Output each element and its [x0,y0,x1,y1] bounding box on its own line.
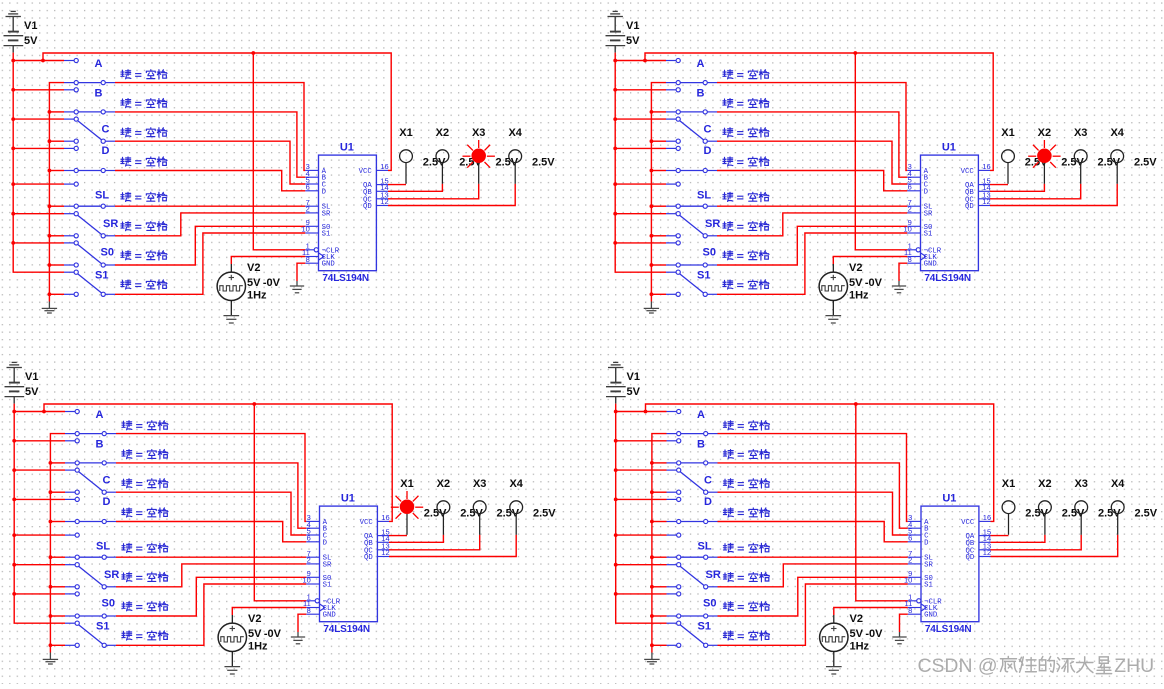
svg-text:CSDN @: CSDN @ [918,655,998,677]
Q3 wire 5V rail to switch [14,498,65,500]
wire QD output to probe X4 [388,184,515,206]
svg-text:5V: 5V [627,386,641,398]
IC Q2-U1 74LS194N body [921,155,979,271]
svg-text:V2: V2 [247,262,260,274]
wire QC output to probe X3 [991,535,1082,550]
pin 16 VCC of Q4-U1 [979,520,991,522]
svg-text:5V: 5V [25,386,39,398]
wire Q4-A pole to U1 [718,434,908,522]
Q2 wire ground rail to switch [651,235,666,237]
pin 15 QA of Q3-U1 [377,535,389,537]
svg-text:2.5V: 2.5V [532,157,555,169]
svg-text:SR: SR [924,210,933,218]
probe lamp Q2-X1 [1007,163,1009,184]
wire QB output to probe X2 [389,535,443,543]
svg-text:GND: GND [322,261,336,269]
pin 14 QB of Q1-U1 [376,190,388,192]
svg-text:U1: U1 [942,141,956,153]
pin 6 D of Q4-U1 [908,541,921,543]
Q4 junction on 5V rail [614,468,618,472]
wire GND pin to ground [899,263,907,281]
svg-text:A: A [96,409,104,421]
label key=space of Q1-SR [121,222,131,231]
switch Q4-S0 key=space SPDT [667,593,677,595]
label key=space of Q3-SR [122,573,132,582]
svg-text:5V: 5V [248,628,262,640]
label key=space of Q4-B [723,450,733,459]
svg-text:D: D [704,145,712,157]
label key=space of Q3-S1 [122,631,132,640]
Q1 wire 5V rail to switch [13,89,64,91]
pin 2 SR of Q1-U1 [305,212,318,214]
Q2 wire 5V rail from V1 [615,53,666,273]
svg-text:A: A [697,409,705,421]
svg-text:U1: U1 [340,141,354,153]
wire QB output to probe X2 [990,184,1044,192]
svg-text:ZHU: ZHU [1114,655,1154,677]
wire Q2-A pole to U1 [717,83,907,171]
label key=space of Q3-SL [122,543,132,552]
svg-text:8: 8 [307,606,311,615]
wire QD output to probe X4 [991,535,1118,557]
pin 4 B of Q4-U1 [908,527,921,529]
Q3 wire 5V rail to switch [14,593,65,595]
svg-text:74LS194N: 74LS194N [323,624,370,635]
label key=space of Q3-S0 [122,602,132,611]
svg-text:D: D [322,188,327,196]
pin 10 S1 of Q4-U1 [908,583,921,585]
Q1 wire 5V rail to switch [13,147,64,149]
Q3 junction on ground rail [49,520,53,524]
svg-text:-0V: -0V [264,628,282,640]
svg-text:C: C [704,475,712,487]
pin 8 GND of Q3-U1 [306,613,319,615]
Q3 wire ground rail [50,434,65,653]
pin 13 QC of Q1-U1 [376,198,388,200]
Q2 junction on 5V rail [613,182,617,186]
svg-text:VCC: VCC [961,519,975,527]
svg-text:2.5V: 2.5V [1135,508,1158,520]
wire Q4-C pole to U1 [718,492,908,535]
svg-text:B: B [697,87,705,99]
svg-text:SL: SL [95,189,109,201]
ground symbol at Q1-V2 [223,315,239,317]
Q2 wire VCC top rail [645,53,993,170]
label key=space of Q4-SL [723,543,733,552]
svg-text:A: A [697,58,705,70]
Q4 junction on 5V rail [614,410,618,414]
pin 4 B of Q1-U1 [305,176,318,178]
label key=space of Q1-A [121,70,131,79]
Q3 junction on 5V rail [12,592,16,596]
switch Q3-S0 key=space SPDT [65,593,75,595]
Q2 DC power source V1 5V with ground on top [614,17,616,32]
label key=space of Q2-C [723,128,733,137]
svg-text:GND: GND [323,612,337,620]
svg-text:X2: X2 [437,478,450,490]
pin 10 S1 of Q3-U1 [306,583,319,585]
switch Q3-B key=space SPDT [65,440,75,442]
pin 1 ~CLR of Q4-U1 [908,600,917,602]
Q1 junction on ground rail [48,204,52,208]
wire Q4-D pole to U1 [718,522,908,542]
svg-text:VCC: VCC [359,168,373,176]
Q2 wire 5V rail to switch [615,147,666,149]
svg-text:X2: X2 [1038,478,1051,490]
svg-text:16: 16 [381,513,389,522]
probe lamp Q3-X4 [515,514,517,535]
svg-text:D: D [924,188,929,196]
Q1 junction on ground rail [48,292,52,296]
wire QC output to probe X3 [389,535,480,550]
svg-text:V1: V1 [627,371,640,383]
switch Q3-S1 key=space SPDT [65,622,75,624]
Q4 junction on 5V rail [614,533,618,537]
svg-text:2.5V: 2.5V [533,508,556,520]
pin 6 D of Q1-U1 [305,190,318,192]
Q2 junction on ground rail [650,234,654,238]
probe lamp Q2-X2 lit [1053,155,1061,157]
Q4 junction on ground rail [650,614,654,618]
Q3 junction on 5V rail [12,439,16,443]
switch Q2-A key=space SPDT [666,60,676,62]
svg-text:VCC: VCC [961,168,975,176]
pin 7 SL of Q3-U1 [306,556,319,558]
pin 11 CLK of Q3-U1 [306,607,319,609]
svg-text:2.5V: 2.5V [1134,157,1157,169]
Q3 junction on 5V rail [12,533,16,537]
svg-text:X1: X1 [400,478,413,490]
Q1 wire ground rail to switch [49,205,64,207]
Q3 wire 5V rail to switch [14,469,65,471]
Q1 junction top rail CLR tap [251,51,255,55]
wire Q3-SL pole to U1 [116,556,306,558]
Q2 junction on 5V rail [613,241,617,245]
Q4 wire ground rail to switch [652,644,667,646]
Q2 wire ground rail to switch [651,111,666,113]
switch Q3-A key=space SPDT [65,411,75,413]
svg-text:8: 8 [908,255,912,264]
Q1 junction on 5V rail [11,241,15,245]
label key=space of Q4-C [723,479,733,488]
Q1 wire VCC top rail [43,53,391,170]
svg-text:10: 10 [301,225,309,234]
label key=space of Q2-A [723,70,733,79]
switch Q1-SR key=space SPDT [64,213,74,215]
Q2 junction top rail at switch A [643,59,647,63]
label key=space of Q3-B [122,450,132,459]
Q1 junction on ground rail [48,234,52,238]
svg-text:VCC: VCC [360,519,374,527]
wire Q2-S0 pole to U1 [717,226,907,265]
Q2 junction on 5V rail [613,212,617,216]
Q4 wire ground rail to switch [652,491,667,493]
Q3 wire ground rail to switch [50,556,65,558]
Q1 junction on 5V rail [11,117,15,121]
label key=space of Q1-S0 [121,251,131,260]
svg-text:16: 16 [983,513,991,522]
pin 11 CLK of Q2-U1 [907,256,920,258]
label key=space of Q1-SL [121,192,131,201]
pin 10 S1 of Q1-U1 [305,232,318,234]
ground symbol at Q4-U1 GND [899,632,901,637]
switch Q4-SL key=space SPDT [667,534,677,536]
pin 11 CLK of Q1-U1 [305,256,318,258]
Q4 junction on ground rail [650,555,654,559]
wire Q3-B pole to U1 [116,463,306,528]
Q1 junction on ground rail [48,110,52,114]
Q2 wire 5V rail to switch [615,213,666,215]
Q4 junction on 5V rail [614,592,618,596]
svg-text:X3: X3 [1074,478,1087,490]
Q4 wire 5V rail from V1 [616,404,667,624]
Q1 wire ground rail to switch [49,111,64,113]
pin 4 B of Q2-U1 [907,176,920,178]
pin 8 GND of Q4-U1 [908,613,921,615]
wire GND pin to ground [298,614,306,632]
pin 12 QD of Q1-U1 [376,205,388,207]
wire QA output to probe X1 [388,184,406,186]
pin 9 S0 of Q1-U1 [305,225,318,227]
switch Q3-D key=space SPDT [65,498,75,500]
wire Q1-S0 pole to U1 [115,226,305,265]
svg-text:SR: SR [705,218,720,230]
Q3 wire 5V rail to switch [14,534,65,536]
svg-text:-0V: -0V [865,277,883,289]
svg-text:X3: X3 [472,127,485,139]
svg-text:1Hz: 1Hz [248,641,268,653]
svg-text:X3: X3 [473,478,486,490]
Q4 wire 5V rail to switch [616,564,667,566]
Q3 ground symbol of switch rail [49,653,51,660]
switch Q2-D key=space SPDT [666,147,676,149]
pin 3 A of Q1-U1 [305,169,318,171]
svg-text:U1: U1 [942,492,956,504]
svg-text:QD: QD [966,554,975,562]
Q2 junction on 5V rail [613,59,617,63]
Q3 junction top rail at switch A [42,410,46,414]
label key=space of Q2-S0 [723,251,733,260]
Q3 junction on ground rail [49,555,53,559]
probe lamp Q1-X4 [514,163,516,184]
IC Q1-U1 74LS194N body [319,155,377,271]
svg-text:-0V: -0V [263,277,281,289]
wire Q2-S1 pole to U1 [717,233,907,294]
svg-text:D: D [704,496,712,508]
pin 5 C of Q3-U1 [306,534,319,536]
Q2 wire 5V rail to switch [615,89,666,91]
label key=space of Q1-D [121,157,131,166]
svg-text:74LS194N: 74LS194N [925,624,972,635]
Q1 junction on 5V rail [11,88,15,92]
pin 9 S0 of Q4-U1 [908,576,921,578]
Q2 wire ground rail to switch [651,293,666,295]
svg-text:D: D [103,496,111,508]
Q1 wire ground rail to switch [49,170,64,172]
wire Q4-SL pole to U1 [718,556,908,558]
switch Q1-S0 key=space SPDT [64,242,74,244]
label key=space of Q1-B [121,99,131,108]
wire Q1-S1 pole to U1 [115,233,305,294]
wire GND pin to ground [297,263,305,281]
svg-text:SR: SR [706,569,721,581]
Q1 ground symbol of switch rail [48,302,50,309]
Q3 junction on 5V rail [12,498,16,502]
svg-text:12: 12 [381,548,389,557]
probe lamp Q3-X1 lit [415,506,423,508]
Q2 junction on 5V rail [613,117,617,121]
svg-text:1Hz: 1Hz [850,641,870,653]
label key=space of Q4-S0 [723,602,733,611]
Q4 wire 5V rail to switch [616,411,667,413]
pin 5 C of Q4-U1 [908,534,921,536]
Q3 junction on 5V rail [12,410,16,414]
Q4 junction on 5V rail [614,439,618,443]
switch Q1-B key=space SPDT [64,89,74,91]
wire Q4-S1 pole to U1 [718,584,908,645]
ground symbol at Q3-U1 GND [297,632,299,637]
wire Q3-S0 pole to U1 [116,577,306,616]
switch Q3-SR key=space SPDT [65,564,75,566]
svg-text:16: 16 [380,162,388,171]
pin 14 QB of Q2-U1 [978,190,990,192]
pin 15 QA of Q2-U1 [978,184,990,186]
label key=space of Q1-C [121,128,131,137]
Q1 wire to ~CLR pin 1 [253,53,305,250]
svg-text:QD: QD [364,554,373,562]
Q4 junction on ground rail [650,461,654,465]
Q4 wire ground rail to switch [652,462,667,464]
Q4 wire 5V rail to switch [616,469,667,471]
pin 14 QB of Q4-U1 [979,541,991,543]
Q1 DC power source V1 5V with ground on top [12,17,14,32]
svg-text:S0: S0 [703,598,716,610]
switch Q2-SL key=space SPDT [666,183,676,185]
Q4 wire ground rail to switch [652,615,667,617]
svg-text:V1: V1 [626,20,639,32]
label key=space of Q2-SR [723,222,733,231]
svg-text:C: C [704,124,712,136]
Q4 junction top rail at switch A [644,410,648,414]
svg-text:5V: 5V [247,277,261,289]
switch Q3-C key=space SPDT [65,469,75,471]
svg-text:74LS194N: 74LS194N [924,273,971,284]
Q4 wire VCC top rail [646,404,994,521]
probe lamp Q1-X2 [441,163,443,184]
label key=space of Q3-C [122,479,132,488]
Q3 DC power source V1 5V with ground on top [13,368,15,383]
svg-text:QD: QD [965,203,974,211]
svg-text:D: D [924,539,929,547]
svg-text:B: B [95,87,103,99]
switch Q1-A key=space SPDT [64,60,74,62]
svg-text:C: C [102,124,110,136]
wire QB output to probe X2 [991,535,1045,543]
Q1 wire 5V rail to switch [13,213,64,215]
svg-text:12: 12 [983,548,991,557]
svg-text:V2: V2 [248,613,261,625]
pin 3 A of Q4-U1 [908,520,921,522]
ground symbol at Q2-U1 GND [898,281,900,286]
Q2 junction top rail CLR tap [853,51,857,55]
Q4 wire ground rail to switch [652,586,667,588]
svg-text:S0: S0 [102,598,115,610]
pin 8 GND of Q2-U1 [907,262,920,264]
Q1 wire ground rail to switch [49,264,64,266]
svg-text:C: C [103,475,111,487]
svg-text:S1: S1 [323,582,332,590]
Q2 wire ground rail to switch [651,205,666,207]
label key=space of Q3-A [122,421,132,430]
Q3 wire ground rail to switch [50,615,65,617]
svg-text:74LS194N: 74LS194N [322,273,369,284]
svg-text:SL: SL [698,540,712,552]
svg-text:X4: X4 [508,127,522,139]
pin 3 A of Q3-U1 [306,520,319,522]
Q3 wire ground rail to switch [50,644,65,646]
wire Q1-D pole to U1 [115,171,305,191]
Q1 wire ground rail to switch [49,293,64,295]
switch Q1-D key=space SPDT [64,147,74,149]
svg-text:V2: V2 [849,262,862,274]
Q2 junction on ground rail [650,204,654,208]
svg-text:GND: GND [924,612,938,620]
pin 1 ~CLR of Q2-U1 [907,249,916,251]
svg-text:S1: S1 [95,269,108,281]
wire Q2-D pole to U1 [717,171,907,191]
wire QB output to probe X2 [388,184,442,192]
wire Q2-SL pole to U1 [717,205,907,207]
Q1 junction on 5V rail [11,212,15,216]
wire QA output to probe X1 [991,535,1009,537]
Q2 wire 5V rail to switch [615,60,666,62]
svg-text:S0: S0 [101,247,114,259]
probe lamp Q4-X2 [1044,514,1046,535]
svg-text:10: 10 [904,576,912,585]
ground symbol at Q1-U1 GND [296,281,298,286]
wire Q3-A pole to U1 [116,434,306,522]
Q4 wire 5V rail to switch [616,440,667,442]
svg-text:S1: S1 [322,231,331,239]
pin 8 GND of Q1-U1 [305,262,318,264]
svg-text:5V: 5V [24,35,38,47]
label key=space of Q4-D [723,508,733,517]
pin 6 D of Q2-U1 [907,190,920,192]
svg-text:S1: S1 [698,620,711,632]
wire Q4-B pole to U1 [718,463,908,528]
wire Q3-SR pole to U1 [116,564,306,587]
Q3 wire ground rail to switch [50,491,65,493]
Q4 junction on ground rail [650,643,654,647]
svg-text:12: 12 [380,197,388,206]
Q3 wire 5V rail to switch [14,564,65,566]
pin 4 B of Q3-U1 [306,527,319,529]
svg-text:12: 12 [982,197,990,206]
svg-text:D: D [102,145,110,157]
pin 7 SL of Q4-U1 [908,556,921,558]
Q2 junction on ground rail [650,110,654,114]
svg-text:X1: X1 [1001,127,1014,139]
svg-text:SR: SR [323,561,332,569]
svg-text:B: B [96,438,104,450]
wire QA output to probe X1 [990,184,1008,186]
wire Q1-C pole to U1 [115,141,305,184]
svg-text:6: 6 [908,534,912,543]
Q2 junction on ground rail [650,139,654,143]
svg-text:X2: X2 [436,127,449,139]
Q1 wire 5V rail from V1 [13,53,64,273]
svg-text:V2: V2 [850,613,863,625]
